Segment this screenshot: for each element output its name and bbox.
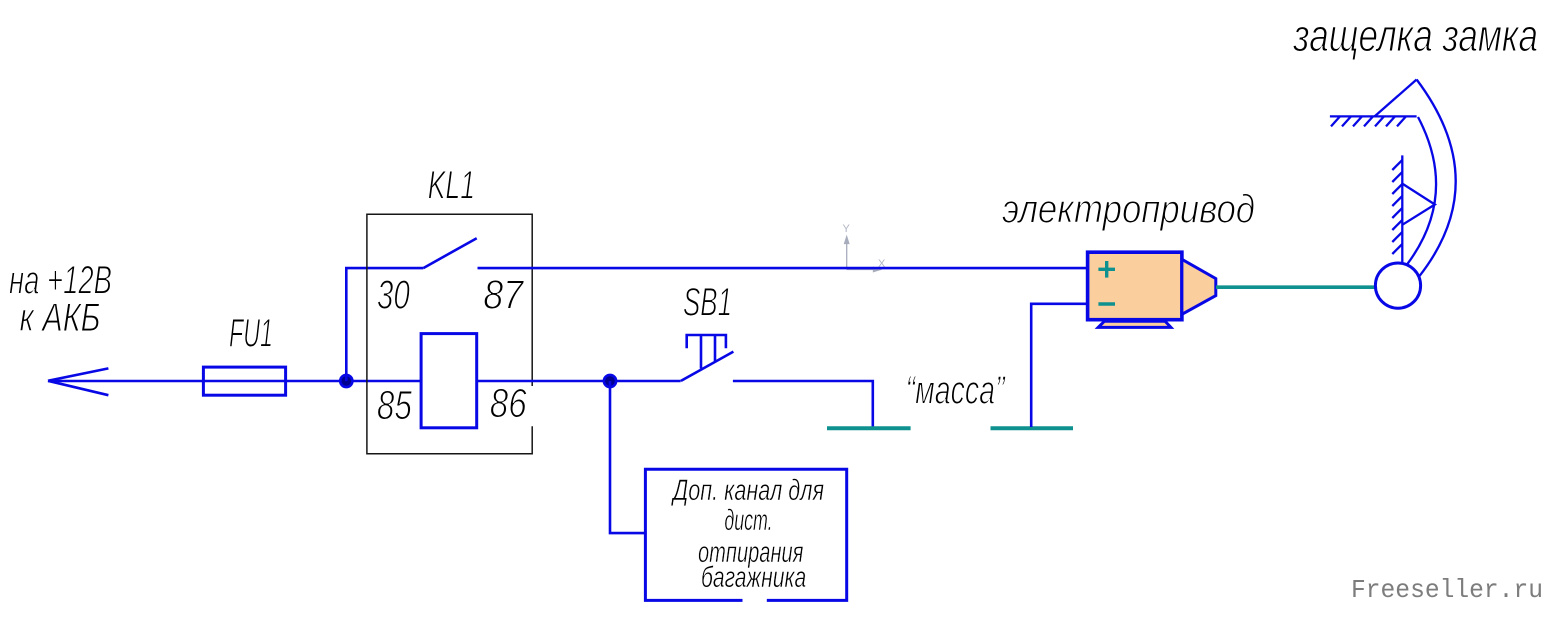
fuse FU1 — [203, 367, 285, 395]
svg-text:к АКБ: к АКБ — [20, 296, 101, 340]
svg-text:SB1: SB1 — [683, 281, 732, 325]
aux channel box — [645, 469, 846, 600]
rod actuator to latch — [1216, 285, 1376, 289]
latch roller circle — [1375, 263, 1420, 308]
switch SB1 — [681, 335, 734, 381]
latch outer arc — [1417, 80, 1456, 277]
latch ceiling hatching — [1331, 116, 1406, 126]
svg-text:30: 30 — [377, 272, 410, 318]
svg-text:87: 87 — [483, 272, 525, 318]
relay coil — [421, 334, 477, 428]
svg-text:FU1: FU1 — [229, 312, 273, 356]
aux box text — [671, 474, 824, 594]
wire junction J2 down to aux box — [610, 381, 645, 533]
actuator cone — [1182, 259, 1216, 314]
wire ground 2 to actuator minus — [1031, 304, 1087, 427]
latch inner arc — [1407, 117, 1436, 265]
ground bar 1 — [827, 426, 911, 430]
wire main horizontal from arrow to relay coil — [48, 380, 421, 383]
relay KL1 box — [367, 214, 532, 454]
node junction J1 — [340, 375, 352, 387]
latch vertical hatched wall — [1401, 155, 1403, 264]
svg-text:Freeseller.ru: Freeseller.ru — [1351, 575, 1543, 605]
latch assembly — [1330, 80, 1456, 277]
latch wall hatching — [1392, 160, 1402, 254]
svg-text:86: 86 — [490, 380, 527, 426]
wire arrow to +12V — [48, 368, 108, 395]
wire junction J1 up to relay pin 30 — [346, 268, 423, 381]
latch ceiling line — [1330, 115, 1417, 117]
actuator minus sign — [1098, 302, 1115, 305]
latch triangle — [1402, 184, 1435, 225]
svg-text:электропривод: электропривод — [1002, 188, 1255, 232]
svg-text:85: 85 — [377, 382, 412, 428]
ground bar 2 — [991, 426, 1074, 430]
svg-text:багажника: багажника — [701, 561, 806, 594]
actuator body — [1088, 252, 1182, 320]
svg-text:KL1: KL1 — [428, 164, 475, 208]
svg-text:Y: Y — [843, 223, 851, 235]
relay switch blade 30-87 — [423, 238, 476, 268]
svg-text:защелка замка: защелка замка — [1293, 10, 1538, 61]
UCS axis marker — [845, 237, 882, 272]
svg-text:дист.: дист. — [724, 504, 772, 537]
wire pin 87 to actuator plus — [478, 267, 1088, 270]
svg-text:“масса”: “масса” — [906, 369, 1006, 413]
wire SB1 to ground — [733, 381, 873, 427]
actuator foot — [1098, 321, 1171, 327]
svg-text:Доп. канал для: Доп. канал для — [671, 474, 824, 507]
latch diagonal strut — [1375, 80, 1417, 117]
node junction J2 — [604, 375, 616, 387]
wire coil pin 86 to SB1 — [477, 380, 681, 383]
actuator plus sign — [1098, 261, 1115, 304]
